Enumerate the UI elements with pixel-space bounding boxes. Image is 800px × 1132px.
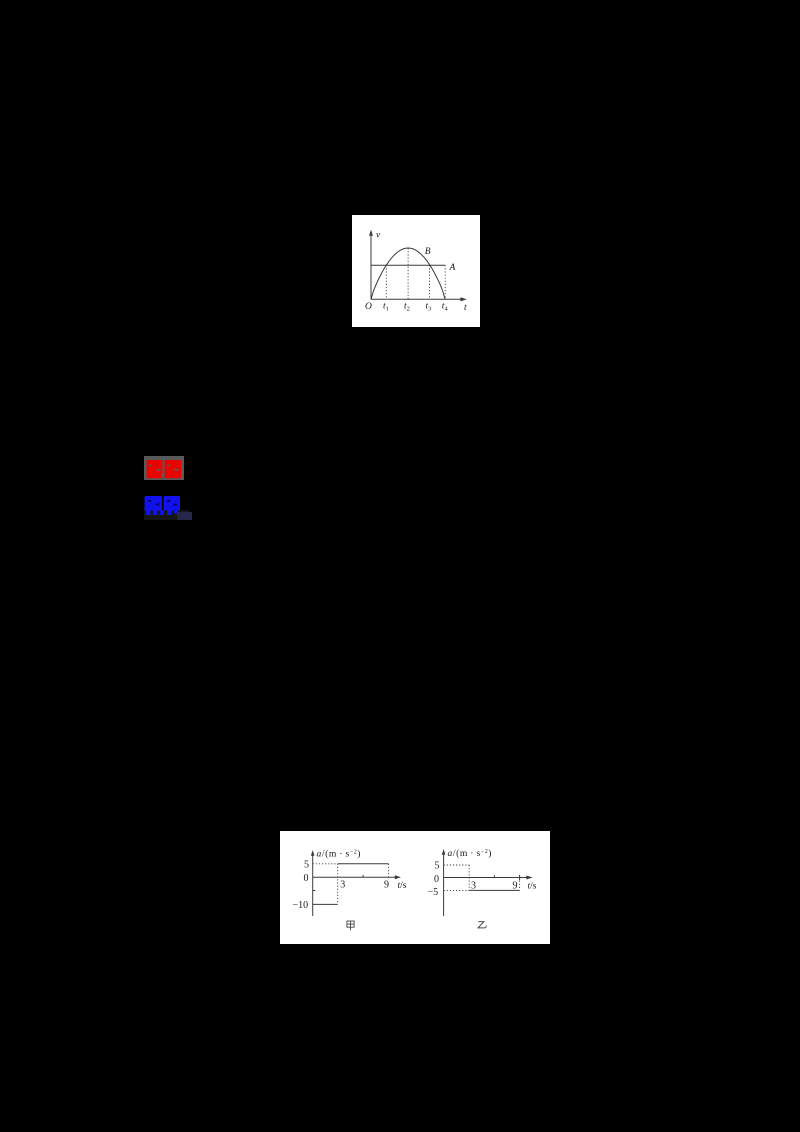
yi tick at t=6	[493, 875, 495, 877]
velocity curve	[371, 248, 445, 299]
blue glyphs	[145, 496, 181, 515]
faint dark base	[144, 510, 189, 520]
svg-text:9: 9	[513, 881, 518, 892]
yi dotted level +5 from axis to t=3	[444, 864, 470, 866]
jia a axis arrowhead	[311, 850, 315, 856]
svg-text:3: 3	[471, 881, 476, 892]
svg-text:0: 0	[304, 873, 309, 884]
yi solid segment a=-5 from t=3 to t=9	[469, 889, 519, 891]
svg-text:5: 5	[435, 861, 440, 872]
svg-text:v: v	[376, 231, 381, 241]
dashed line t2	[407, 248, 409, 299]
dashed line t4	[444, 265, 446, 299]
yi a axis	[443, 853, 445, 916]
svg-text:t1: t1	[383, 302, 389, 313]
jia dotted vertical at t=3	[337, 864, 339, 905]
svg-text:t: t	[464, 303, 467, 313]
svg-text:9: 9	[384, 879, 389, 890]
svg-text:t/s: t/s	[528, 882, 537, 892]
jia caption glyph	[347, 921, 354, 930]
a-t graphs white panel	[280, 831, 550, 944]
svg-text:t2: t2	[404, 302, 410, 313]
svg-text:−10: −10	[293, 900, 309, 911]
yi t axis arrowhead	[526, 876, 532, 880]
v axis	[370, 235, 372, 300]
yi dotted vertical at t=3	[468, 865, 470, 890]
jia tick at t=6	[362, 875, 364, 877]
jia solid segment a=+5 from t=3 to t=9	[338, 863, 389, 865]
svg-text:3: 3	[340, 880, 345, 891]
dashed line t1	[385, 265, 387, 299]
svg-text:5: 5	[304, 860, 309, 871]
yi dotted level -5 from axis to t=3	[444, 889, 470, 891]
svg-text:A: A	[449, 263, 456, 273]
svg-text:0: 0	[434, 874, 439, 885]
svg-text:O: O	[365, 302, 372, 312]
jia t axis arrowhead	[395, 875, 401, 879]
t axis arrowhead	[460, 297, 466, 301]
red answer badge	[144, 456, 184, 480]
dashed line t3	[429, 265, 431, 299]
jia dotted level +5 from axis to t=3	[313, 863, 338, 865]
jia dotted vertical at t=9	[388, 864, 390, 877]
yi t axis	[444, 877, 528, 879]
svg-text:a/(m · s−2): a/(m · s−2)	[448, 848, 493, 859]
jia a axis	[312, 854, 314, 916]
yi dotted vertical at t=9	[519, 878, 521, 891]
blue answer badge	[142, 494, 194, 522]
svg-text:a/(m · s−2): a/(m · s−2)	[317, 849, 362, 860]
svg-text:−5: −5	[428, 887, 439, 898]
jia t axis	[313, 876, 397, 878]
yi tick at t=9	[519, 875, 521, 880]
horizontal line at level A	[371, 264, 445, 266]
svg-text:B: B	[425, 247, 431, 257]
v axis arrowhead	[369, 230, 373, 236]
yi a axis arrowhead	[442, 849, 446, 855]
v-t graph white panel	[352, 215, 480, 327]
svg-text:t4: t4	[442, 302, 449, 313]
t axis	[371, 298, 462, 300]
navy block	[177, 512, 192, 520]
svg-text:t3: t3	[426, 302, 432, 313]
jia solid segment a=-10 from 0 to t=3	[313, 903, 338, 905]
jia tick at a=-5	[313, 890, 316, 892]
yi caption glyph	[478, 922, 486, 928]
svg-text:t/s: t/s	[398, 881, 407, 891]
